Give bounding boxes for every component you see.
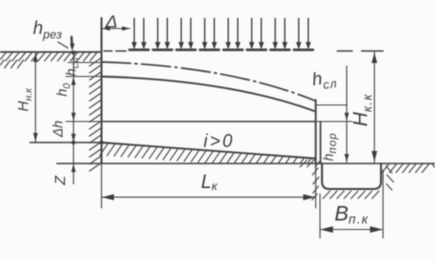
- dimension H_nk: [35, 53, 37, 143]
- collector well: [322, 164, 381, 190]
- water surface curve: [102, 77, 316, 112]
- node dot on ground line: [72, 51, 76, 55]
- depression curve (dash-dot): [102, 62, 316, 101]
- dimension L_k: [102, 164, 316, 209]
- sill top line: [102, 121, 316, 123]
- node dot wall/invert: [100, 141, 104, 145]
- svg-text:Hк.к: Hк.к: [350, 93, 375, 126]
- label h_sl right: [311, 66, 338, 93]
- svg-text:Δh: Δh: [51, 120, 66, 138]
- label h0 (rotated): [54, 83, 74, 97]
- label h_por (rotated): [321, 132, 339, 161]
- sill back wall: [320, 122, 322, 164]
- label delta: [105, 12, 118, 32]
- node dot at invert: [72, 141, 76, 145]
- dimension delta (setback): [102, 28, 131, 30]
- svg-text:hсл: hсл: [311, 66, 338, 93]
- ground hatching top-left: [0, 53, 97, 69]
- wall hatch band: [90, 58, 102, 171]
- svg-text:Z: Z: [52, 175, 69, 186]
- wall face (left bank vertical): [101, 18, 103, 164]
- leader h_rez: [58, 42, 68, 48]
- svg-text:i>0: i>0: [204, 131, 235, 151]
- label B_pk: [335, 203, 370, 227]
- label i>0: [204, 131, 235, 151]
- dimension h_sl right arrow: [346, 66, 348, 121]
- invert line left of wall: [30, 142, 102, 144]
- tick water-table level at wall: [68, 62, 102, 64]
- canal end drop wall: [315, 100, 317, 164]
- label h_sl left (rotated): [64, 57, 82, 76]
- canal bottom slope line: [102, 143, 316, 159]
- subsoil bottom line: [57, 163, 435, 165]
- label L_k: [201, 172, 219, 193]
- svg-text:hрез: hрез: [33, 18, 62, 42]
- svg-text:Δ: Δ: [105, 12, 118, 32]
- svg-text:h0: h0: [54, 83, 74, 97]
- svg-text:hсл: hсл: [64, 57, 82, 76]
- svg-text:Lк: Lк: [201, 172, 219, 193]
- right ground hatch: [382, 164, 435, 173]
- dimension h_por: [346, 123, 348, 163]
- label H_nk (rotated): [16, 87, 35, 112]
- ground surface line top-left: [0, 51, 102, 53]
- sill top extension: [316, 121, 352, 123]
- svg-text:Bп.к: Bп.к: [335, 203, 370, 227]
- well hatch: [312, 166, 394, 200]
- dimension column (h_sl, h0, dh, Z): [73, 53, 75, 185]
- label Z (rotated): [52, 175, 69, 186]
- dimension H_kk: [373, 52, 375, 163]
- svg-text:Hн.к: Hн.к: [16, 87, 35, 112]
- arrow h_rez: [70, 37, 73, 45]
- label h_rez: [33, 18, 62, 42]
- label dh (rotated): [51, 120, 66, 138]
- distributed load bars with arrows: [130, 19, 314, 50]
- canal bottom hatch: [100, 143, 320, 167]
- water level extension at outlet: [316, 104, 347, 106]
- arrowheads on column: [71, 77, 76, 172]
- svg-text:hпор: hпор: [321, 132, 339, 161]
- label H_kk (rotated): [350, 93, 375, 126]
- top dashed ground line segments: [104, 50, 383, 52]
- tick sill level left of wall: [66, 121, 102, 123]
- tick water-surface level at wall: [66, 76, 102, 78]
- dimension B_pk: [320, 170, 383, 238]
